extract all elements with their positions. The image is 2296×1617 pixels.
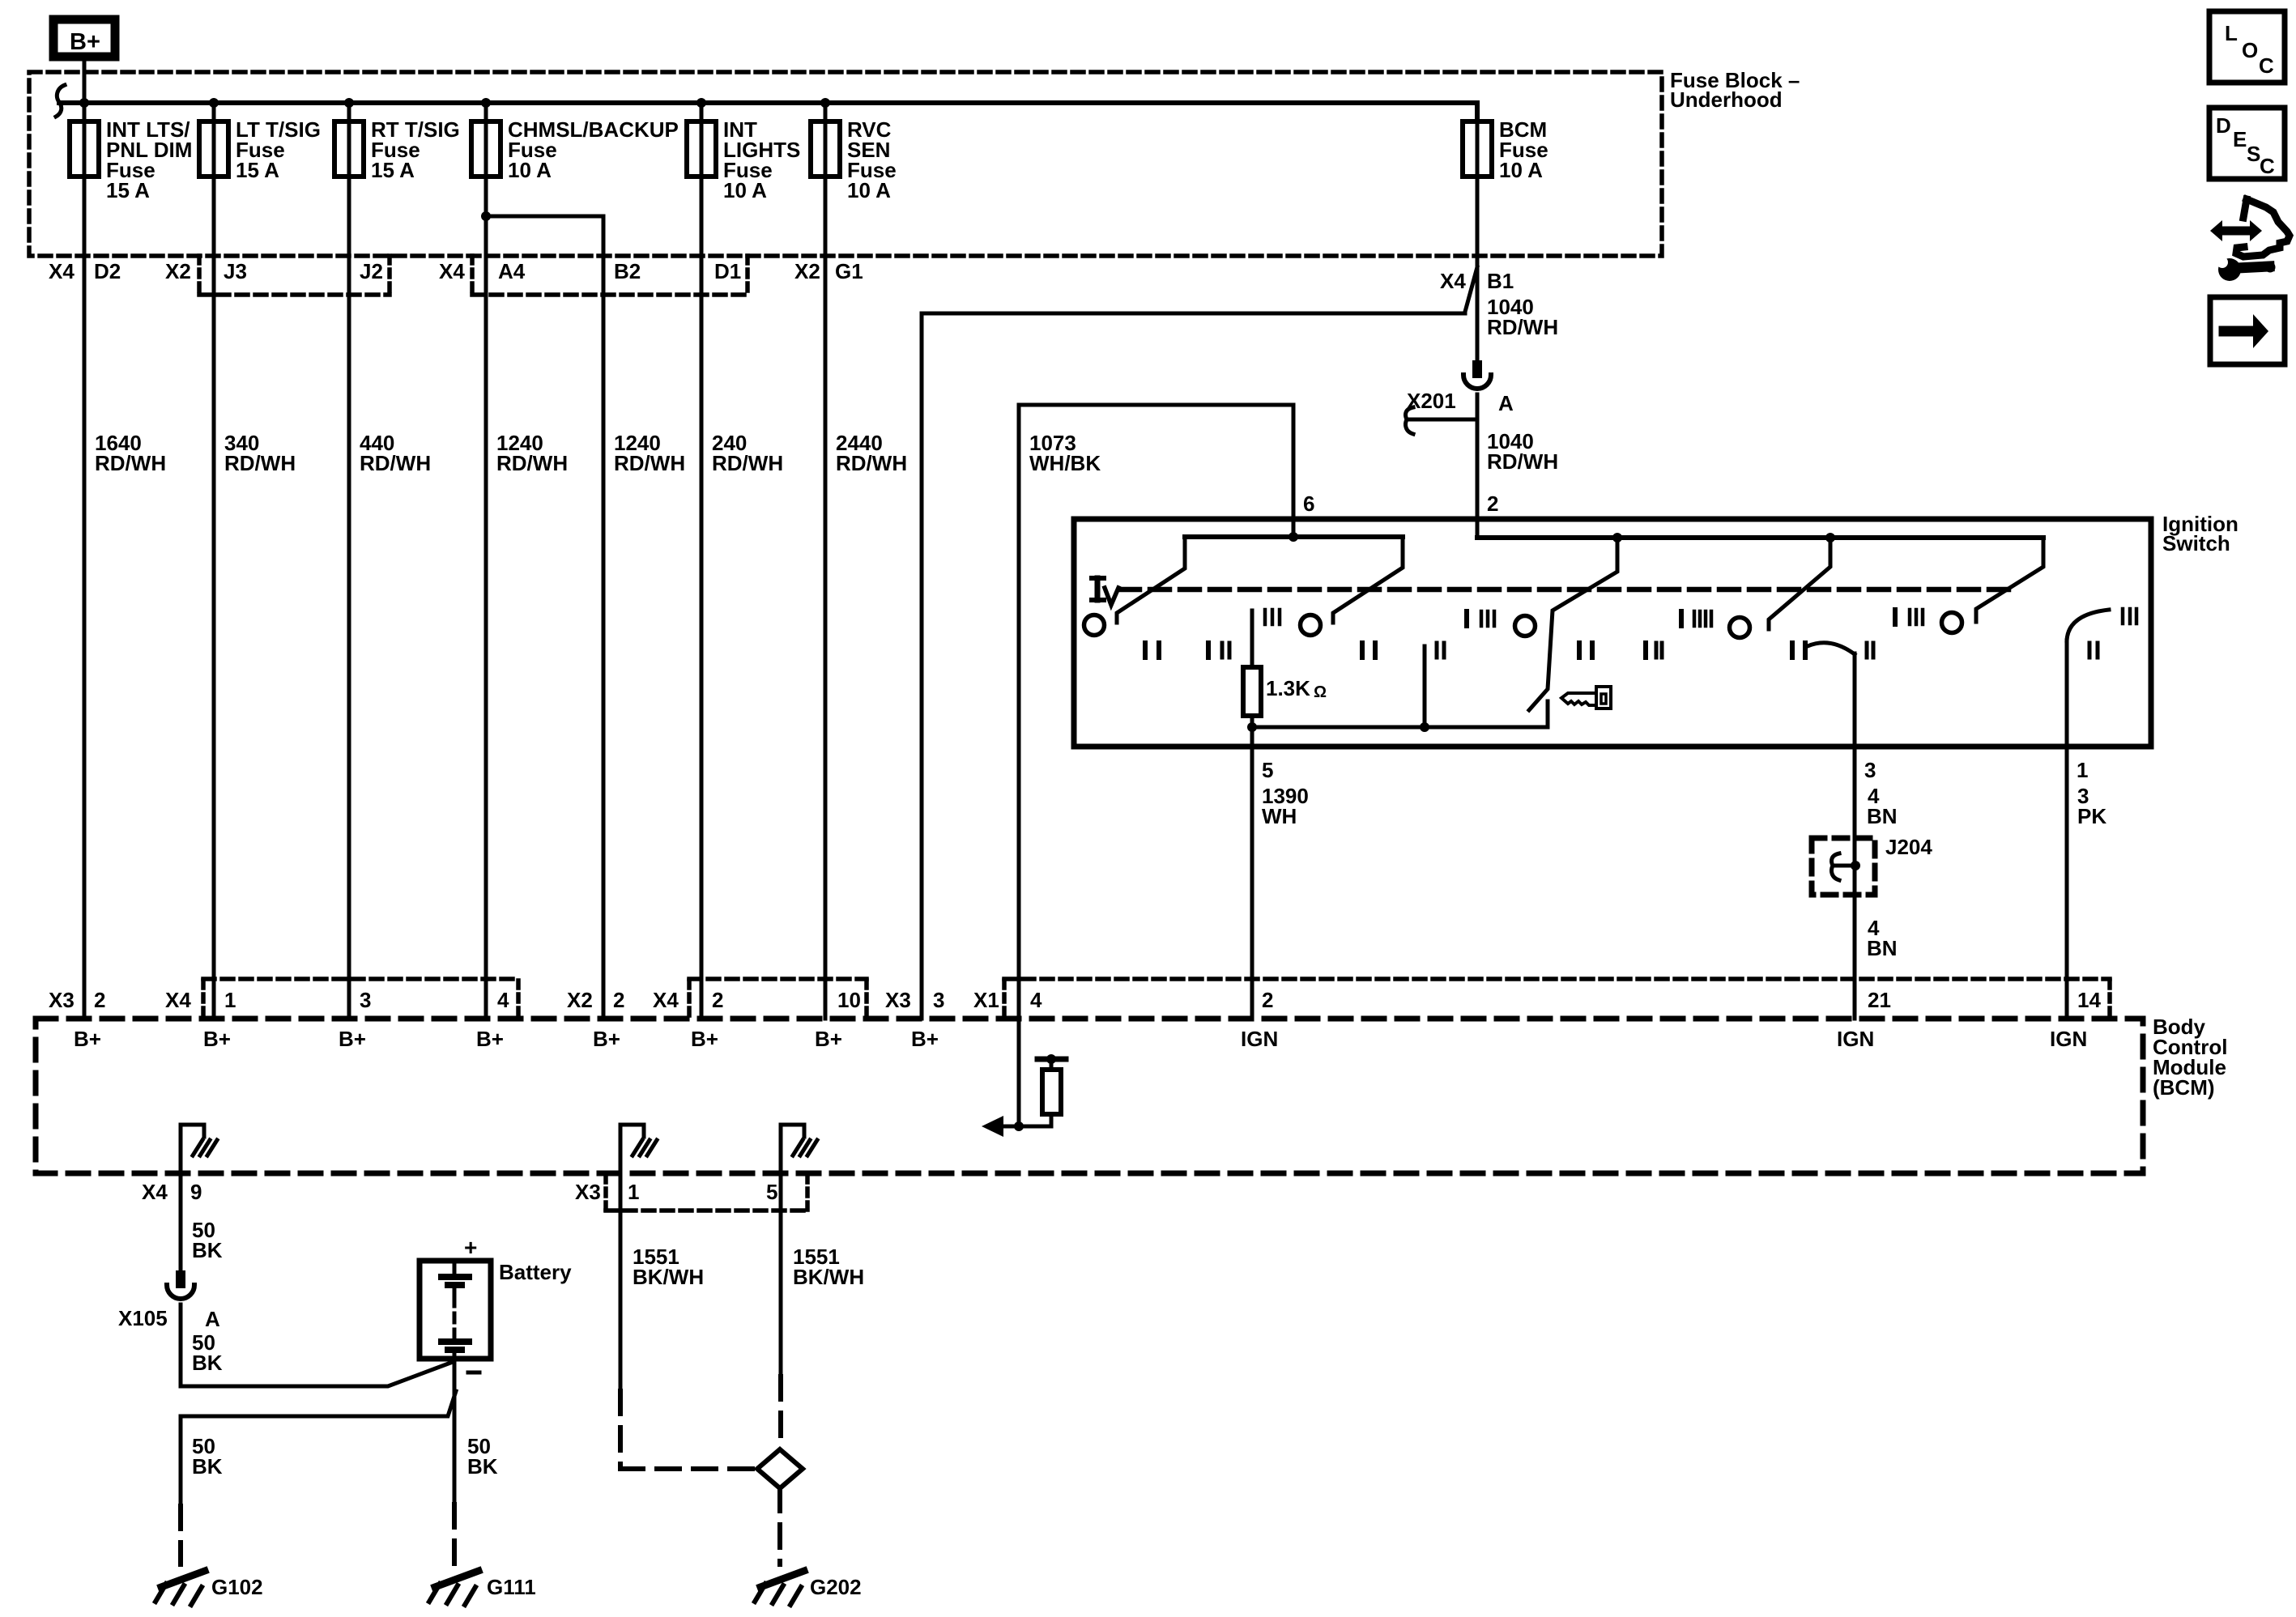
svg-text:5: 5 xyxy=(766,1180,777,1204)
ground G202 xyxy=(755,1571,804,1605)
BCM B+ labels xyxy=(74,1027,939,1051)
BCM internal ground 1 xyxy=(179,1125,183,1173)
key icon xyxy=(1561,693,1596,705)
wire 4 BN pin3 to J204 xyxy=(1853,653,1857,1019)
svg-text:9: 9 xyxy=(190,1180,202,1204)
BCM connector sub-box X4 (pins 1,3,4) xyxy=(201,981,206,1019)
svg-text:+: + xyxy=(464,1235,477,1260)
svg-text:B+: B+ xyxy=(203,1027,231,1051)
svg-text:B+: B+ xyxy=(593,1027,620,1051)
svg-text:J204: J204 xyxy=(1885,835,1932,859)
svg-text:B+: B+ xyxy=(691,1027,718,1051)
svg-text:X3: X3 xyxy=(885,988,911,1012)
svg-text:B1: B1 xyxy=(1487,269,1514,293)
svg-text:Ω: Ω xyxy=(1314,683,1327,701)
svg-text:IGN: IGN xyxy=(1241,1027,1278,1051)
svg-text:RD/WH: RD/WH xyxy=(360,451,431,475)
switch arm 3 (key contact arm) xyxy=(1529,538,1617,710)
connector X4 dashed box (A4,B2,D1) xyxy=(470,256,475,295)
svg-text:A4: A4 xyxy=(498,259,526,283)
svg-text:4: 4 xyxy=(1030,988,1042,1012)
svg-text:J2: J2 xyxy=(360,259,383,283)
svg-text:B+: B+ xyxy=(339,1027,366,1051)
svg-text:PK: PK xyxy=(2077,804,2106,828)
svg-text:C: C xyxy=(2259,53,2274,78)
svg-text:B+: B+ xyxy=(74,1027,101,1051)
key switch fixed contact xyxy=(1546,701,1550,727)
BCM internal resistor and arrow at X1-4 xyxy=(1014,1121,1024,1131)
svg-text:X2: X2 xyxy=(165,259,191,283)
fusible link hook xyxy=(56,85,65,117)
svg-text:X4: X4 xyxy=(1440,269,1466,293)
svg-text:Underhood: Underhood xyxy=(1670,87,1783,112)
svg-text:X2: X2 xyxy=(567,988,593,1012)
switch arm pin 3 (curved) xyxy=(1808,643,1855,654)
icon box arrow xyxy=(2210,297,2285,364)
svg-text:A: A xyxy=(205,1307,220,1331)
svg-text:BK/WH: BK/WH xyxy=(793,1265,864,1289)
svg-text:14: 14 xyxy=(2077,988,2101,1012)
svg-text:X3: X3 xyxy=(575,1180,601,1204)
switch arm 2 xyxy=(1333,537,1403,623)
svg-text:2: 2 xyxy=(1262,988,1273,1012)
switch contact circle 5 xyxy=(1942,613,1962,633)
svg-text:IGN: IGN xyxy=(1837,1027,1874,1051)
svg-text:L: L xyxy=(2225,21,2238,45)
svg-text:RD/WH: RD/WH xyxy=(1487,315,1558,339)
svg-text:X4: X4 xyxy=(439,259,465,283)
svg-text:B+: B+ xyxy=(911,1027,939,1051)
switch arm 4 xyxy=(1769,538,1830,629)
svg-text:BN: BN xyxy=(1867,804,1898,828)
fuse RT T/SIG 15 A xyxy=(334,103,460,182)
battery xyxy=(420,1235,572,1372)
svg-text:Switch: Switch xyxy=(2162,531,2230,555)
J204 stub xyxy=(1835,864,1855,868)
svg-text:RD/WH: RD/WH xyxy=(836,451,907,475)
svg-text:2: 2 xyxy=(613,988,624,1012)
dashed wire to G202 xyxy=(777,1488,782,1564)
svg-text:B+: B+ xyxy=(815,1027,842,1051)
fuse block underhood dashed box xyxy=(29,72,1662,256)
svg-text:WH/BK: WH/BK xyxy=(1029,451,1101,475)
splice J204 dashed box xyxy=(1812,838,1875,895)
svg-text:10 A: 10 A xyxy=(847,178,891,202)
BCM IGN labels xyxy=(1241,1027,2087,1051)
switch contact circle 4 xyxy=(1730,618,1750,638)
branch wire from CHMSL fuse to B2 xyxy=(481,211,491,221)
icon box LOC xyxy=(2209,11,2285,83)
fuse CHMSL/BACKUP 10 A xyxy=(471,103,679,182)
svg-text:5: 5 xyxy=(1262,758,1273,782)
svg-text:1.3K: 1.3K xyxy=(1266,676,1310,700)
svg-text:G1: G1 xyxy=(835,259,863,283)
tap to BCM B+ (X3-3) xyxy=(922,267,1477,1019)
svg-text:X201: X201 xyxy=(1407,389,1456,413)
svg-text:S: S xyxy=(2247,142,2260,166)
svg-text:RD/WH: RD/WH xyxy=(1487,449,1558,474)
wire 1040 RD/WH to ignition switch pin 2 xyxy=(1476,394,1480,538)
wire 2440 RD/WH xyxy=(825,177,907,1019)
svg-text:X4: X4 xyxy=(142,1180,168,1204)
svg-text:4: 4 xyxy=(497,988,509,1012)
svg-text:D2: D2 xyxy=(94,259,121,283)
wire 3 PK pin1 to BCM xyxy=(2065,640,2069,1019)
switch contact circle 3 xyxy=(1515,616,1536,636)
svg-text:10 A: 10 A xyxy=(508,158,552,182)
svg-text:O: O xyxy=(2242,38,2258,62)
fuse LT T/SIG 15 A xyxy=(199,103,321,182)
X201 mating half stub xyxy=(1409,418,1477,422)
svg-text:1: 1 xyxy=(224,988,236,1012)
BCM internal ground 2 xyxy=(619,1125,623,1173)
ignition internal wire left (pin 6 rail) xyxy=(1185,534,1403,539)
wire to G102 xyxy=(181,1391,456,1506)
svg-text:X4: X4 xyxy=(165,988,191,1012)
svg-text:X4: X4 xyxy=(49,259,75,283)
switch contact circle 1 xyxy=(1084,615,1105,636)
switch arm 5 xyxy=(1976,538,2043,622)
svg-text:B+: B+ xyxy=(476,1027,504,1051)
battery negative wire to G111 xyxy=(453,1359,457,1504)
wire 1040 RD/WH from BCM fuse xyxy=(1476,177,1480,360)
svg-text:15 A: 15 A xyxy=(236,158,279,182)
svg-text:10 A: 10 A xyxy=(1499,158,1543,182)
svg-text:X105: X105 xyxy=(118,1306,168,1330)
wire 440 RD/WH xyxy=(349,177,431,1019)
svg-text:RD/WH: RD/WH xyxy=(614,451,685,475)
svg-text:G102: G102 xyxy=(211,1575,263,1599)
wire 50 BK to X105 xyxy=(179,1173,183,1270)
svg-text:2: 2 xyxy=(712,988,723,1012)
svg-text:6: 6 xyxy=(1303,491,1314,516)
svg-text:15 A: 15 A xyxy=(371,158,415,182)
ignition switch box xyxy=(1074,519,2151,747)
switch arm pin 1 (curved) xyxy=(2067,610,2109,640)
fuse BCM 10 A xyxy=(1463,117,1548,182)
svg-text:X2: X2 xyxy=(794,259,820,283)
wire 1390 WH pin5 to BCM xyxy=(1250,727,1254,1019)
svg-text:BK/WH: BK/WH xyxy=(633,1265,704,1289)
svg-text:1: 1 xyxy=(628,1180,639,1204)
position ticks row 1 xyxy=(1265,609,2136,626)
svg-text:RD/WH: RD/WH xyxy=(712,451,783,475)
ignition internal bottom wire xyxy=(1250,716,1254,727)
svg-text:B+: B+ xyxy=(70,29,100,55)
icon box DESC xyxy=(2209,108,2285,179)
svg-text:X4: X4 xyxy=(653,988,679,1012)
svg-text:2: 2 xyxy=(94,988,105,1012)
svg-text:C: C xyxy=(2260,154,2275,178)
svg-text:(BCM): (BCM) xyxy=(2153,1075,2215,1100)
bus junction dots xyxy=(79,98,89,108)
position indicator IV glyph xyxy=(1092,578,1118,605)
wire 50 BK to battery negative xyxy=(181,1304,453,1386)
svg-text:BK: BK xyxy=(192,1238,223,1262)
switch arm 1 xyxy=(1117,537,1185,623)
icon vehicle with wrench xyxy=(2210,199,2290,281)
svg-text:3: 3 xyxy=(360,988,371,1012)
svg-text:2: 2 xyxy=(1487,491,1498,516)
svg-text:G111: G111 xyxy=(487,1575,536,1599)
svg-text:RD/WH: RD/WH xyxy=(95,451,166,475)
svg-text:D: D xyxy=(2216,113,2231,138)
connector X3 dashed box below BCM xyxy=(603,1175,608,1211)
svg-text:10 A: 10 A xyxy=(723,178,767,202)
wire 1073 WH/BK pin6 to BCM X1-4 xyxy=(1019,405,1293,1126)
ignition internal wire right (pin 2 rail) xyxy=(1477,535,2043,540)
BCM internal ground 3 xyxy=(779,1125,783,1173)
svg-text:G202: G202 xyxy=(810,1575,862,1599)
svg-text:BK: BK xyxy=(192,1351,223,1375)
svg-text:E: E xyxy=(2233,127,2247,151)
svg-text:RD/WH: RD/WH xyxy=(496,451,568,475)
svg-text:J3: J3 xyxy=(224,259,247,283)
wire 1640 RD/WH xyxy=(84,177,166,1019)
BCM connector sub-box X4 (pins 2,10) xyxy=(687,981,692,1019)
fuse RVC SEN 10 A xyxy=(811,103,897,202)
wire 340 RD/WH xyxy=(214,177,296,1019)
svg-text:A: A xyxy=(1498,391,1514,415)
BCM connector sub-box X1 (pins 4,2,21,14) xyxy=(1002,981,1007,1019)
svg-text:BN: BN xyxy=(1867,936,1898,960)
wire 1551 BK/WH (X3-5) xyxy=(779,1173,783,1377)
svg-text:X1: X1 xyxy=(973,988,999,1012)
svg-text:D1: D1 xyxy=(714,259,741,283)
connector X2 dashed box (J3,J2) xyxy=(197,256,202,295)
fuse INT LTS/PNL DIM 15 A xyxy=(70,103,192,202)
svg-text:X3: X3 xyxy=(49,988,75,1012)
svg-text:3: 3 xyxy=(933,988,944,1012)
B+ power symbol box xyxy=(53,19,115,57)
B+ bus wire xyxy=(59,100,1477,105)
wire 240 RD/WH xyxy=(701,177,783,1019)
BCM lower pin labels xyxy=(142,1180,777,1204)
resistor 1.3K ohm xyxy=(1250,611,1254,667)
svg-text:WH: WH xyxy=(1262,804,1297,828)
svg-text:21: 21 xyxy=(1868,988,1891,1012)
svg-text:10: 10 xyxy=(837,988,861,1012)
center fixed contact stub xyxy=(1423,646,1427,727)
svg-text:Battery: Battery xyxy=(499,1260,572,1284)
svg-text:3: 3 xyxy=(1864,758,1876,782)
BCM pin labels xyxy=(49,988,2101,1012)
svg-text:15 A: 15 A xyxy=(106,178,150,202)
svg-text:BK: BK xyxy=(467,1454,498,1479)
wire from B+ to bus xyxy=(83,57,87,103)
ground G102 xyxy=(155,1571,205,1605)
ground G111 xyxy=(429,1571,479,1605)
wire 1240 RD/WH xyxy=(603,216,685,1019)
fuse block pin labels xyxy=(49,259,863,283)
svg-text:1: 1 xyxy=(2077,758,2088,782)
svg-text:IGN: IGN xyxy=(2050,1027,2087,1051)
switch contact circle 2 xyxy=(1301,615,1321,636)
fuse INT LIGHTS 10 A xyxy=(687,103,800,202)
gang dashed line xyxy=(1120,587,2008,593)
splice diamond xyxy=(757,1449,803,1488)
svg-text:B2: B2 xyxy=(614,259,641,283)
wire 1551 BK/WH (X3-1) xyxy=(619,1173,623,1391)
svg-text:BK: BK xyxy=(192,1454,223,1479)
svg-text:RD/WH: RD/WH xyxy=(224,451,296,475)
wire 1240 RD/WH xyxy=(486,177,568,1019)
position ticks row 2 xyxy=(1145,643,2098,657)
BCM dashed box xyxy=(36,1019,2143,1173)
connector X201 xyxy=(1463,360,1491,389)
connector X105 xyxy=(167,1270,194,1299)
